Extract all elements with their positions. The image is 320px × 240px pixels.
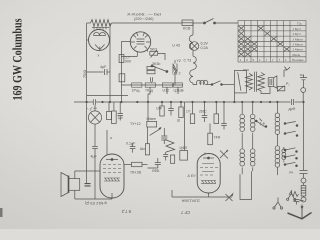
switch S2 wave selector [151,65,153,67]
lamp small right [301,88,306,93]
wire fuse to switch [193,22,204,24]
volume pot arrow [150,128,161,135]
tube A output pentode envelope [100,154,124,198]
tube A right lead to resistor [124,164,132,166]
svg-text:ƒ·в: ƒ·в [260,122,265,126]
tube B anode dot [208,157,210,159]
svg-text:3K3b: 3K3b [152,62,160,66]
resistor R10 vertical [145,144,149,155]
table row labels [240,22,305,63]
capacitor C9 [163,152,168,161]
tube B grid dashes [200,164,218,176]
resistor R4 box row1 [132,83,142,87]
svg-text:9 7,2: 9 7,2 [121,209,131,214]
box B2 [147,71,155,74]
svg-text:U/вее: U/вее [147,117,156,121]
switch bank contact 1 [284,123,286,125]
svg-text:ЦФЛ: ЦФЛ [180,146,188,150]
svg-text:4μF: 4μF [100,65,107,69]
wire bottom left corner [240,171,252,199]
bus main horizontal left [74,101,93,103]
wires verticals mid [184,102,186,151]
wire V2 vertical from R1 right down to bus [109,23,111,102]
svg-text:0,1μF: 0,1μF [126,142,136,146]
speaker cone [61,173,69,197]
svg-text:Шк: Шк [140,147,145,151]
tube A bottom lead [111,193,113,199]
svg-text:Печовек: Печовек [292,58,304,62]
wire H1 to fuse [112,22,183,24]
resistor R5 box row1 [145,83,155,87]
earpiece magnet [268,78,274,87]
svg-text:74Я: 74Я [214,136,221,140]
svg-text:C T3: C T3 [184,59,192,63]
choke loops [197,80,208,84]
edge smudge [0,208,3,217]
tube V2 inner grid bars [137,39,145,44]
resistor R3 box [119,74,125,82]
tube B top leads [204,153,206,155]
wire right chain vertical [303,102,305,170]
coil L3c small [282,149,286,153]
svg-text:5KΩ: 5KΩ [150,48,157,52]
svg-text:1пФ: 1пФ [156,107,162,111]
svg-text:4μF: 4μF [91,155,98,159]
resistor R12 striped [301,186,306,197]
resistor R14 horizontal [132,162,143,166]
junction dots on bus [86,101,305,103]
switch S4 mid coils [255,120,257,122]
fuse KCB [182,20,193,26]
wire pickup down [94,124,96,146]
stub R6 to bus [166,87,168,94]
tube V1 filament [95,45,105,50]
capacitor C7 [130,143,136,153]
svg-text:1 Бутт: 1 Бутт [293,32,302,36]
tube A top leads [106,153,108,156]
crossed circle pickup [88,111,101,124]
transformer bottom wires [261,86,270,93]
tube V1 lead left [87,39,89,41]
svg-text:CF 7: CF 7 [180,210,190,215]
electrolytic C8 [161,128,167,144]
tube B cathode hatch [201,181,216,184]
jack fork 2 [288,190,294,199]
heater U43 scallops [189,35,193,50]
wire speaker box top up [74,171,76,179]
wire V3 vertical left column [120,42,122,102]
heater chain wire bottom [193,83,197,85]
coil L3b [275,146,280,151]
ballast frame [234,71,246,93]
potentiometer P1 [278,86,285,90]
transformer secondary zigzag [258,73,265,91]
under-bus capacitor Cc [221,102,227,130]
svg-text:Da: Da [300,73,304,77]
svg-text:1Pщ₂: 1Pщ₂ [132,89,141,93]
switch S mains [204,22,206,24]
svg-text:лч: лч [289,171,293,175]
tube V2 lead bottom right [147,50,149,52]
wire switch to table [215,22,239,24]
svg-text:U12: U12 [163,89,170,93]
resistor R9 above tube B [208,133,213,145]
svg-text:900: 900 [125,60,131,64]
capacitor C15 series in bus [93,99,95,105]
resistor R2 box [119,55,124,63]
svg-text:110V,13mA: 110V,13mA [181,199,200,203]
svg-text:дрФ: дрФ [289,107,296,111]
tube A anode dot [111,159,113,161]
resistor R8 vertical to tube A [112,111,117,124]
bus main horizontal [96,101,291,103]
jack ring 1 [301,178,306,183]
wire top H1 [87,22,91,24]
svg-text:ПЦд: ПЦд [146,89,154,93]
tube V1 lead right [109,39,112,41]
capacitor C14 series [85,184,91,186]
box B1 [147,67,155,70]
svg-text:Мали: Мали [293,53,301,57]
stub electrolytic to row [174,76,176,85]
wire bottom B [172,196,232,198]
svg-text:1 Мали: 1 Мали [293,48,303,52]
speaker coil box [69,179,80,191]
svg-text:u: u [110,136,112,140]
coil L1a [241,102,243,114]
tube B envelope CF7 [197,154,220,194]
heater UC2 scallops left [190,70,193,83]
capacitor C4 series in bus [292,99,294,105]
svg-text:X-Kontr. — bei: X-Kontr. — bei [127,13,161,17]
svg-text:ƒ Бутт: ƒ Бутт [293,27,302,31]
svg-text:ƒ·1: ƒ·1 [86,108,91,112]
electrolytic C3 [173,60,177,76]
under-bus resistor Rb [179,107,183,118]
tube V2 lead bottom left [136,52,138,57]
svg-text:Y2: Y2 [177,59,181,63]
svg-text:263С: 263С [199,110,207,114]
resistor R1 mains dropper [91,20,112,27]
switch S3 [211,84,213,86]
svg-text:Ш: Ш [177,119,180,123]
ballast zigzag [246,73,253,90]
tube V1 rectifier envelope [89,30,110,51]
coil L3a [276,102,278,113]
svg-text:ψ·М12 ЛЭ.(2): ψ·М12 ЛЭ.(2) [85,201,107,205]
coil L2a [241,135,243,149]
heater mid wire [192,50,194,57]
capacitor C1 [87,69,110,75]
wire left vertical main [86,23,88,173]
wire W1 lower [86,173,88,184]
trimmer arrow X [220,150,228,159]
lamp dial [190,42,199,51]
under-bus capacitor Ca [168,102,174,116]
tube V2 lead left [121,41,130,43]
under-bus box Bb [214,114,219,124]
wire choke to S3 [205,84,211,86]
svg-text:(220∼/240): (220∼/240) [134,17,154,21]
under-bus resistor Rc [190,114,194,124]
svg-text:ЛФБ: ЛФБ [152,169,160,173]
wire speaker box bottom down [74,190,76,199]
transformer top wires [243,69,249,71]
stub R7 to bus [177,87,179,94]
wire tube V2 cathode lead [121,56,137,58]
capacitor C13 [294,200,304,205]
svg-text:ƒ Мали: ƒ Мали [293,37,303,41]
jack fork 1 [275,198,282,208]
svg-text:ПН 2В: ПН 2В [131,171,142,175]
wire P2 right [158,53,165,60]
svg-text:0,2A: 0,2A [201,46,209,50]
capacitor C6 under bus [118,102,124,121]
bus right segment after cap [295,101,304,103]
wire tube A grid left [75,170,101,172]
wire bottom left stub [171,190,173,197]
wire tube A grid [106,130,108,153]
ballast stubs [233,93,235,102]
svg-text:x: x [98,54,100,58]
tube V2 electrode ticks [131,33,150,49]
wire P1 top [283,70,285,77]
wire C5 chain down [94,153,96,200]
wire boxes row [121,84,183,86]
tube B bottom lead [208,193,210,197]
wire S3 to ballast [222,84,235,86]
earth ground symbol [288,213,312,219]
under-bus capacitor Cb [202,102,208,122]
heater chain wire top [192,23,194,35]
tube V1 anode bumps [94,32,106,35]
capacitor C11 antenna [300,75,307,88]
antenna wire fork [284,69,287,71]
capacitor C2 pair [151,77,153,83]
svg-text:U 43: U 43 [172,44,180,48]
jack ring 2 [301,197,306,202]
table band-switch grid [238,21,306,63]
svg-text:ТУ+12: ТУ+12 [130,122,141,126]
ballast switch line [238,72,241,91]
switch bank contact 5 [284,164,286,166]
tube A grid dashes [103,165,121,173]
bus upper short [87,95,128,97]
capacitor C5 [92,147,98,153]
svg-text:ƒ Мали: ƒ Мали [293,42,303,46]
table X marks [239,26,290,56]
coil L2b [252,135,254,149]
zigzag resistor R13 [289,192,299,197]
resistor R7 box row1 [174,83,183,87]
switch bank contact 3 [284,149,286,151]
wire bottom rail [75,198,112,200]
svg-text:750Ω: 750Ω [83,69,87,78]
coil tap comb under R1 [92,27,109,29]
switch bank contact 2 [284,133,286,135]
capacitor C12 [300,171,308,179]
svg-text:UC 2: UC 2 [172,72,180,76]
svg-text:1M: 1M [118,116,123,120]
resistor R6 box row1 [162,83,172,87]
speaker diaphragm line [68,176,70,194]
svg-text:А ЕУ: А ЕУ [188,174,197,178]
X mark end [226,194,233,201]
transformer core [255,72,257,92]
under-bus resistor Ra [160,106,164,116]
svg-text:17/: 17/ [186,110,191,114]
svg-text:Т/д: Т/д [297,22,302,26]
volume control chain box [147,121,157,127]
stub R5 to bus [148,87,150,102]
capacitor C10 bottom [148,158,161,168]
tube V2 octode envelope [130,32,150,52]
box B3 under bus [107,112,112,120]
svg-text:KCB: KCB [183,27,191,31]
heater CT3 scallops right [193,56,196,69]
svg-text:ƒ·из: ƒ·из [91,106,97,110]
coil L1b [252,102,254,114]
box B4 left of tube B [180,151,188,161]
potentiometer P2 with arrow [150,52,158,56]
zigzag resistor diagonal [165,140,175,153]
tube A cathode hatch [104,178,120,181]
svg-text:169 GW Columbus: 169 GW Columbus [10,18,24,100]
resistor R11 vertical [171,155,175,163]
switch bank contact 4 [284,156,286,158]
svg-text:ЦЗШв: ЦЗШв [174,89,184,93]
